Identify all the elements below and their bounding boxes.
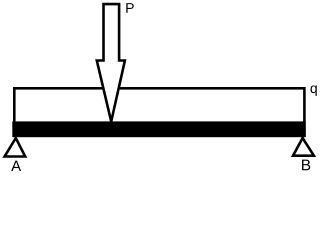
point load arrow P bbox=[97, 4, 125, 121]
beam solid bar bbox=[12, 121, 305, 137]
beam outline rectangle bbox=[14, 88, 304, 135]
label q bbox=[310, 85, 316, 95]
pin support B bbox=[293, 138, 314, 156]
label A bbox=[11, 161, 21, 171]
label P bbox=[126, 3, 133, 13]
pin support A bbox=[5, 138, 26, 157]
label B bbox=[302, 160, 310, 171]
